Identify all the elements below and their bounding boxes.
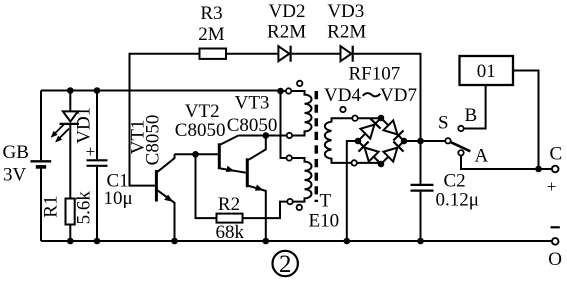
node C1 top (94, 87, 101, 94)
wire VT2 collector rail to winding P1 bottom (238, 135, 286, 137)
bridge edge BL diode (358, 141, 381, 164)
svg-text:VD1: VD1 (74, 107, 95, 144)
svg-text:C2: C2 (444, 170, 466, 191)
switch S pole (445, 138, 450, 143)
svg-text:VD3: VD3 (327, 1, 364, 22)
node C1 bottom rail (94, 238, 101, 245)
capacitor C2 (420, 141, 422, 184)
transistor VT1 (155, 170, 158, 202)
wire VD3 to bridge DC+ node (354, 54, 421, 141)
node DC+ junction (417, 138, 424, 145)
bridge edge TL diode (358, 118, 381, 141)
node bridge right (401, 138, 408, 145)
terminal P2 bottom (287, 199, 292, 204)
svg-text:2M: 2M (198, 24, 225, 45)
terminal unused secondary tap (340, 107, 345, 112)
terminal P1 bottom (287, 133, 292, 138)
diode VD3 (341, 46, 353, 62)
switch contact A (458, 150, 463, 155)
node C2 bottom rail (417, 238, 424, 245)
resistor R2 (217, 214, 243, 223)
svg-text:5.6k: 5.6k (74, 191, 95, 225)
wire bottom rail (41, 240, 552, 242)
svg-text:GB: GB (3, 142, 29, 163)
wire R2 right to winding P2 bottom (243, 202, 288, 219)
svg-text:01: 01 (477, 61, 496, 82)
transformer core T (315, 91, 319, 202)
LED VD1 (69, 91, 71, 112)
node VD1 bottom rail (67, 238, 74, 245)
wire top net: R3 left lead down to VT1 base (130, 54, 200, 186)
node primary top (277, 88, 284, 95)
svg-text:3V: 3V (3, 165, 27, 186)
svg-text:A: A (475, 146, 489, 167)
svg-text:C8050: C8050 (227, 115, 278, 136)
transistor VT2 (218, 143, 221, 169)
wire contact A to output C (461, 156, 552, 170)
svg-text:R2M: R2M (327, 22, 366, 43)
svg-text:+: + (86, 142, 96, 161)
wire bridge DC+ to switch pole (404, 140, 445, 142)
svg-text:C8050: C8050 (175, 120, 226, 141)
node output C junction (535, 166, 542, 173)
switch contact B (458, 126, 463, 131)
node bridge top (378, 115, 385, 122)
terminal unused bottom tap (297, 205, 302, 210)
switch blade (451, 142, 471, 151)
node VT3 emitter rail (263, 238, 270, 245)
svg-text:RF107: RF107 (349, 64, 401, 85)
winding S1 (secondary) (325, 118, 381, 163)
svg-text:B: B (465, 105, 478, 126)
diode VD2 (278, 46, 290, 62)
svg-text:VD7: VD7 (380, 85, 417, 106)
svg-text:R2M: R2M (267, 22, 306, 43)
terminal unused top tap (297, 81, 302, 86)
svg-text:2: 2 (279, 251, 292, 278)
LED VD1 arrows (54, 124, 65, 135)
resistor R3 (200, 49, 227, 59)
wire contact B to box 01 (464, 85, 486, 128)
wire VD2 to VD3 (292, 53, 340, 55)
node R2 tap (192, 151, 199, 158)
node VT1 emitter rail (171, 238, 178, 245)
figure number circle 2 (273, 251, 298, 276)
svg-text:VD2: VD2 (269, 1, 306, 22)
svg-text:C: C (550, 143, 563, 164)
svg-text:+: + (547, 177, 557, 196)
terminal secondary top (352, 116, 357, 121)
svg-text:0.12μ: 0.12μ (436, 190, 479, 211)
node bridge left (355, 138, 362, 145)
capacitor C1 (96, 91, 98, 160)
svg-text:R3: R3 (200, 3, 222, 24)
box 01 (460, 56, 514, 85)
node bridge bottom (378, 161, 385, 168)
label minus (output) (551, 226, 560, 228)
terminal secondary bottom (352, 160, 357, 165)
terminal P2 top (287, 155, 292, 160)
resistor R1 (66, 199, 75, 225)
bridge edge BR diode (381, 141, 404, 164)
svg-text:10μ: 10μ (104, 188, 133, 209)
bridge edge TR diode (381, 118, 404, 141)
svg-text:VT2: VT2 (185, 101, 220, 122)
node VT3 collector tap (263, 132, 270, 139)
svg-text:C8050: C8050 (143, 115, 164, 166)
wire bridge DC- to bottom rail (347, 141, 358, 241)
svg-text:R1: R1 (41, 196, 62, 218)
svg-text:S: S (438, 113, 449, 134)
wire primary link down to P2 top terminal (281, 91, 287, 158)
svg-text:VD4: VD4 (324, 85, 361, 106)
wire box 01 to output C node (513, 71, 539, 170)
svg-text:O: O (548, 249, 562, 270)
svg-text:68k: 68k (216, 222, 245, 243)
svg-text:VT3: VT3 (235, 93, 270, 114)
node DC- rail (344, 238, 351, 245)
wire R3 to VD2 (226, 53, 277, 55)
battery GB (31, 160, 52, 162)
wire supply rail (upper) (41, 90, 281, 92)
wire left rail (battery branch) (40, 91, 42, 161)
svg-text:T: T (320, 190, 332, 211)
wire rail to P1 top terminal (281, 90, 286, 92)
node VD1 top (67, 87, 74, 94)
winding P2 (primary bottom) (292, 158, 312, 202)
svg-text:E10: E10 (309, 210, 340, 231)
wire R2 branch (196, 154, 217, 218)
svg-text:R2: R2 (218, 194, 240, 215)
terminal C (552, 166, 559, 173)
terminal O (552, 238, 559, 245)
wire VT1 collector to VT2 base (175, 153, 218, 155)
winding P1 (primary top) (291, 91, 311, 136)
terminal P1 top (286, 88, 291, 93)
transistor VT3 (246, 158, 249, 187)
